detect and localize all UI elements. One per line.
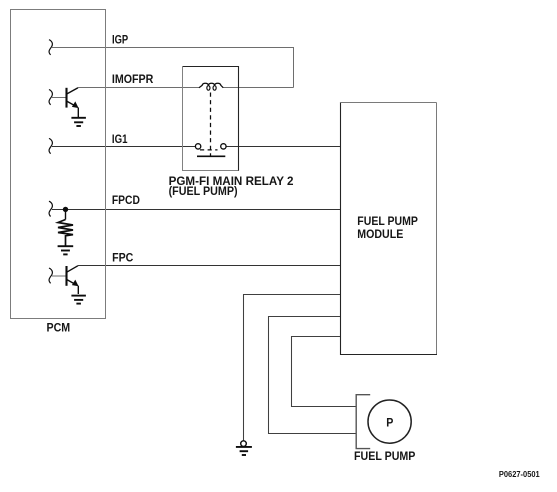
svg-text:MODULE: MODULE [357, 229, 403, 241]
svg-text:PCM: PCM [47, 323, 71, 335]
svg-text:FPCD: FPCD [112, 195, 140, 207]
svg-text:(FUEL PUMP): (FUEL PUMP) [169, 186, 238, 198]
svg-text:FPC: FPC [112, 252, 133, 264]
svg-text:IG1: IG1 [112, 134, 128, 146]
svg-text:FUEL PUMP: FUEL PUMP [357, 216, 418, 228]
svg-text:P0627-0501: P0627-0501 [499, 469, 540, 479]
svg-text:IGP: IGP [112, 34, 128, 46]
svg-text:IMOFPR: IMOFPR [112, 74, 154, 86]
svg-text:FUEL PUMP: FUEL PUMP [354, 451, 416, 463]
svg-text:P: P [386, 417, 393, 429]
